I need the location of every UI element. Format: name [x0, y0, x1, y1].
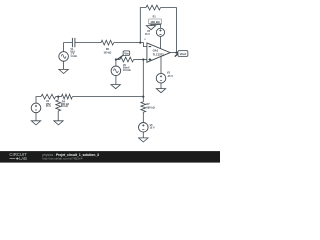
svg-text:15 V: 15 V	[46, 105, 51, 108]
voltage source V6	[111, 66, 121, 76]
wire V1 top to cap	[64, 43, 73, 52]
svg-text:10 kHz: 10 kHz	[123, 69, 132, 72]
wire + node down	[142, 60, 144, 102]
node Vin junction	[115, 58, 117, 60]
voltage source V5	[139, 123, 149, 133]
watermark bar	[0, 151, 220, 163]
wire R3 to node	[56, 96, 62, 98]
resistor R3	[41, 94, 56, 99]
flag Vin	[117, 55, 123, 59]
wire op-amp V- pin	[160, 56, 162, 73]
ground under R4	[54, 121, 63, 125]
wire cap to R6	[75, 42, 101, 44]
wire R4 to ground	[57, 111, 59, 121]
wire R2 to + input	[134, 59, 147, 61]
node + input junction	[142, 58, 144, 60]
voltage source V2	[31, 103, 41, 113]
wire V4 to ground	[151, 25, 161, 28]
ground under V2	[31, 121, 40, 125]
wire V1 to ground	[63, 61, 65, 70]
ground top	[146, 26, 155, 30]
wire R6 to op-amp inverting input	[114, 43, 147, 47]
wire V2 to ground	[35, 112, 37, 120]
wire op-amp V+ pin	[160, 37, 162, 49]
svg-text:-15 V: -15 V	[167, 75, 173, 78]
node divider junction	[57, 96, 59, 98]
svg-text:TLC2272: TLC2272	[153, 53, 165, 57]
wire V2 up and right	[36, 97, 41, 104]
wire V6 up to node	[115, 60, 117, 67]
resistor R5	[61, 94, 72, 99]
voltage source V1	[59, 52, 69, 62]
svg-text:15 V: 15 V	[145, 33, 150, 36]
wire feedback left	[140, 8, 146, 43]
svg-text:LAB: LAB	[19, 156, 27, 161]
ground under V5	[139, 138, 148, 142]
svg-text:1 kHz: 1 kHz	[70, 55, 77, 58]
svg-text:50 kΩ: 50 kΩ	[61, 105, 68, 108]
node feedback junction	[139, 42, 141, 44]
capacitor C1	[72, 38, 75, 47]
wire V5 to ground	[142, 132, 144, 138]
wire V6 to ground	[115, 75, 117, 84]
svg-text:Vin: Vin	[124, 52, 128, 56]
ground under V6	[111, 85, 120, 89]
ground under V3	[156, 89, 165, 93]
svg-text:http://circuitlab.com/c/7852e4: http://circuitlab.com/c/7852e4	[42, 157, 83, 161]
ground under V1	[59, 69, 68, 73]
node bottom junction	[142, 96, 144, 98]
svg-text:100 kΩ: 100 kΩ	[150, 20, 160, 24]
wire R5 to bottom node	[72, 96, 143, 98]
resistor R1	[146, 5, 161, 10]
wire op-amp output	[170, 52, 176, 54]
resistor R4 vertical	[56, 100, 61, 111]
svg-text:15 V: 15 V	[150, 127, 155, 130]
resistor R7	[141, 102, 146, 112]
svg-text:680 kΩ: 680 kΩ	[147, 107, 155, 110]
voltage source V3	[156, 73, 166, 83]
wire V3 to ground	[160, 83, 162, 89]
wire feedback right	[161, 8, 177, 53]
flag Vout	[175, 53, 178, 56]
wire R7 to V5	[142, 112, 144, 122]
voltage source V4	[156, 28, 164, 36]
resistor R2	[116, 59, 120, 61]
op-amp OA1 TLC2272	[147, 43, 170, 62]
node output junction	[175, 52, 177, 54]
svg-text:100 kΩ: 100 kΩ	[103, 51, 111, 54]
resistor R6	[101, 40, 114, 45]
svg-text:OA1: OA1	[153, 49, 159, 53]
svg-text:Vout: Vout	[180, 52, 186, 56]
